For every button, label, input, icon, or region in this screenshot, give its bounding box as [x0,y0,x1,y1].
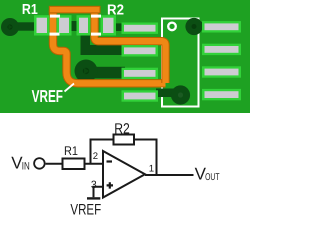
via B (VREF via) [75,60,98,83]
svg-text:OUT: OUT [205,172,219,183]
wire: output to VOUT [145,174,194,176]
svg-text:R1: R1 [64,144,78,158]
svg-text:IN: IN [22,161,30,173]
wire: orange trace from R2 to IC pin region (top run + right vertical) [95,10,166,83]
wire: dark nub via C to pad R1 [194,22,205,30]
wire: dark trace via A to R1 pad1 [9,22,35,30]
svg-text:R2: R2 [107,3,124,19]
wire: dark band to pad L2 (pin2) [81,45,126,55]
wire: dark trace pad2 to pad3 [68,21,80,31]
IC pad L3 [122,68,159,79]
input terminal circle [34,158,45,169]
svg-text:VREF: VREF [70,201,101,218]
svg-text:R2: R2 [114,121,130,137]
IC pad L1 [122,23,159,34]
svg-text:2: 2 [93,151,98,162]
svg-text:R1: R1 [22,2,38,18]
silkscreen tick R1 top [50,15,60,18]
IC pad R1 [202,21,241,32]
resistor R2 footprint pad 1 [77,15,91,35]
op-amp plus sign [107,182,113,188]
svg-text:1: 1 [149,164,154,175]
IC U1 outline (silkscreen box) [162,19,199,107]
wire: dark bar via C2 to pad L4 [156,89,180,98]
IC pad R2 [202,44,241,55]
resistor R1 footprint pad 2 [57,15,72,35]
IC pin-1 marker circle [168,23,176,31]
wire: orange trace from R1 around via B to IC (bottom run) [53,10,166,83]
op-amp U1 triangle [103,151,145,198]
IC pad R4 [202,89,241,100]
svg-text:VREF: VREF [32,86,63,106]
wire: orange top bar linking R1/R2 gaps [49,6,100,13]
op-amp minus sign [107,160,113,162]
wire: dark bar via B to pad L3 [86,67,125,79]
silkscreen tick R2 bottom [91,33,101,36]
resistor R1 [63,159,85,170]
IC pad R3 [202,66,241,77]
via C (top right) [185,18,202,35]
wire: Vin to R1 to op-amp pin 2 [46,163,103,165]
PCB layout image (top half) [0,0,250,228]
resistor R1 footprint pad 1 [34,15,50,35]
wire: dark trace pad4 to pad L1 [113,23,125,31]
IC pad L4 [122,90,159,101]
via A (test point top-left) [1,18,19,36]
VREF terminal bar [87,197,100,199]
via C2 (bottom) [171,85,190,104]
wire: dark stub down from pad3 [81,30,91,50]
silkscreen tick R1 bottom [50,33,60,36]
wire: feedback top horizontal [91,140,157,176]
VREF callout line [65,84,75,92]
IC pad L2 [122,45,159,56]
silkscreen tick R2 top [91,15,101,18]
PCB board background [0,0,250,113]
resistor R2 footprint pad 2 [101,15,117,35]
wire: pin 3 to VREF terminal [94,187,104,198]
resistor R2 [114,135,135,145]
